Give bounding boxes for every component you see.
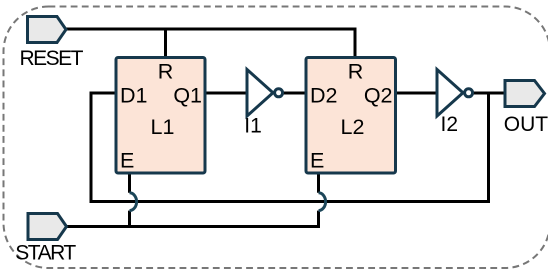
wire hop over feedback line at E1: [130, 193, 137, 211]
latch L2 body: [306, 58, 396, 174]
svg-text:R: R: [348, 60, 364, 84]
label L2: [341, 115, 365, 139]
svg-text:RESET: RESET: [20, 47, 84, 70]
svg-text:I2: I2: [441, 113, 459, 136]
label OUT: [504, 113, 548, 136]
wire E pin of L2 down to START net: [317, 174, 320, 228]
pin label E of L2: [310, 149, 324, 173]
label I1: [244, 115, 262, 138]
wire E pin of L1 down to START net: [128, 174, 131, 228]
label L1: [151, 115, 175, 139]
wire hop over feedback line at E2: [319, 193, 326, 211]
wire I2 output to OUT port: [473, 92, 506, 95]
inverter I1: [247, 70, 283, 117]
pin label R of L2: [348, 60, 364, 84]
svg-text:Q1: Q1: [173, 84, 202, 108]
svg-text:D1: D1: [120, 84, 147, 108]
pin label R of L1: [158, 60, 174, 84]
label RESET: [20, 47, 84, 70]
pin label E of L1: [120, 149, 134, 173]
wire RESET net to R pins of L1 and L2: [64, 29, 355, 56]
input port RESET: [28, 17, 67, 43]
svg-text:L1: L1: [151, 115, 175, 139]
latch L1 body: [116, 58, 205, 174]
svg-text:L2: L2: [341, 115, 365, 139]
svg-text:D2: D2: [310, 84, 337, 108]
wire feedback OUT node to D1: [91, 93, 489, 202]
inverter I2: [437, 70, 473, 117]
svg-text:E: E: [120, 149, 134, 173]
pin label D2: [310, 84, 337, 108]
wire Q1 to I1 input: [205, 92, 247, 95]
wire START net to E pins: [65, 225, 321, 228]
svg-text:Q2: Q2: [364, 84, 393, 108]
wire Q2 to I2 input: [396, 92, 437, 95]
svg-text:R: R: [158, 60, 174, 84]
label I2: [441, 113, 459, 136]
output port OUT: [505, 81, 545, 107]
pin label Q1: [173, 84, 202, 108]
pin label D1: [120, 84, 147, 108]
input port START: [28, 214, 67, 240]
svg-text:START: START: [15, 242, 76, 265]
svg-text:OUT: OUT: [504, 113, 548, 136]
pin label Q2: [364, 84, 393, 108]
label START: [15, 242, 76, 265]
wire I1 output to D2: [283, 92, 306, 95]
svg-text:E: E: [310, 149, 324, 173]
svg-text:I1: I1: [244, 115, 262, 138]
